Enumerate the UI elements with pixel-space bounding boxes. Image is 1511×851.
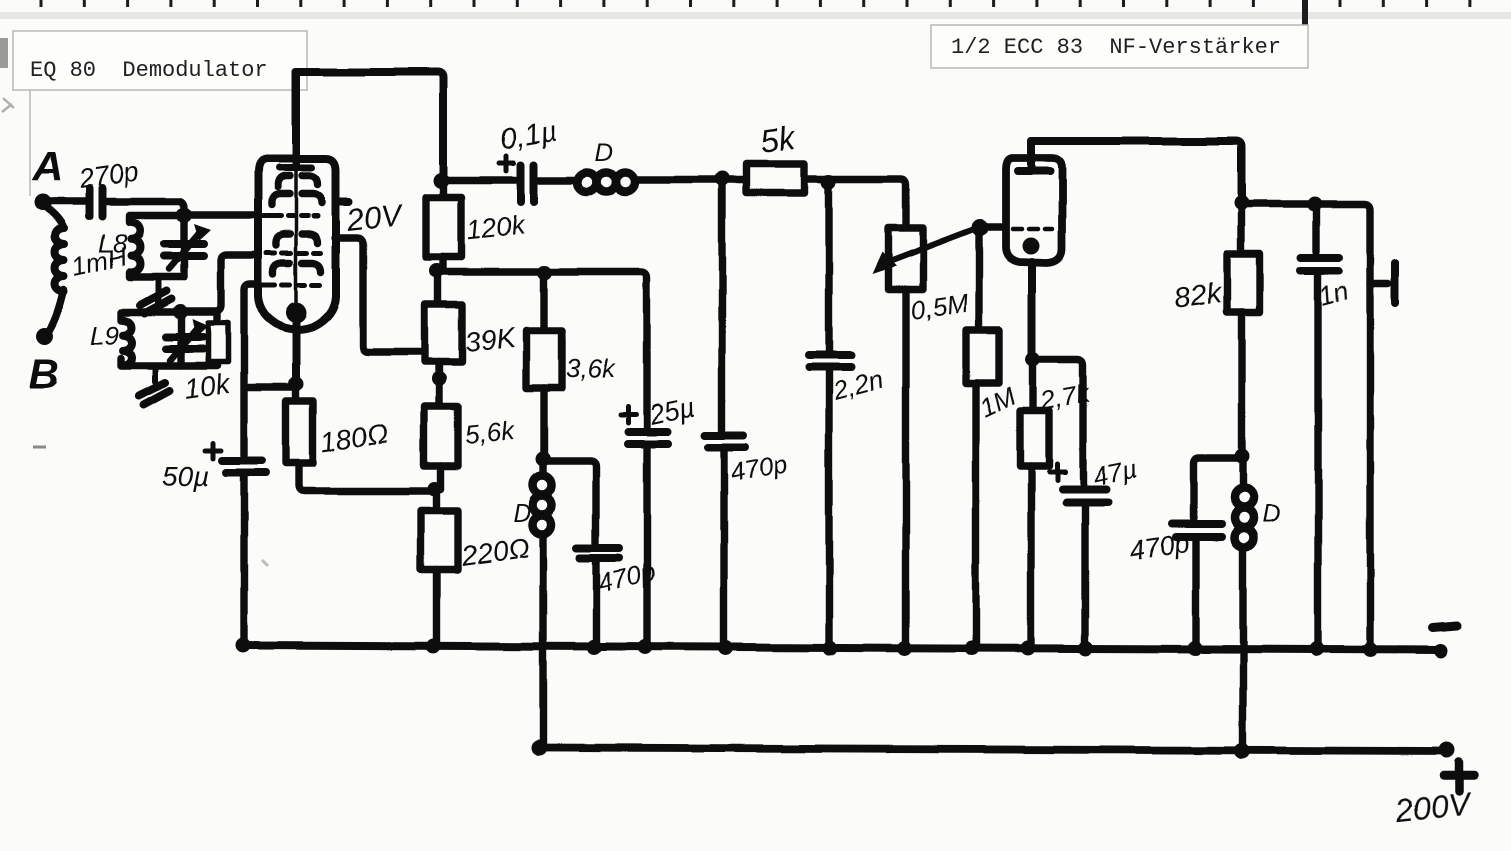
- svg-text:25µ: 25µ: [646, 392, 698, 431]
- svg-text:82k: 82k: [1173, 277, 1225, 315]
- svg-text:47µ: 47µ: [1090, 453, 1139, 491]
- svg-text:B: B: [29, 350, 59, 397]
- svg-text:120k: 120k: [465, 210, 528, 246]
- svg-text:20V: 20V: [344, 197, 407, 238]
- svg-text:1M: 1M: [975, 381, 1021, 424]
- svg-text:10k: 10k: [183, 368, 234, 405]
- svg-text:D: D: [595, 139, 613, 167]
- svg-text:1/2 ECC 83 NF-Verstärker: 1/2 ECC 83 NF-Verstärker: [951, 35, 1281, 60]
- svg-text:0,5M: 0,5M: [909, 288, 971, 326]
- svg-text:5,6k: 5,6k: [463, 415, 517, 450]
- svg-text:1n: 1n: [1316, 275, 1352, 311]
- svg-text:L9: L9: [90, 320, 119, 350]
- svg-text:EQ 80 Demodulator: EQ 80 Demodulator: [30, 58, 268, 83]
- svg-text:270p: 270p: [76, 156, 141, 194]
- svg-text:470p: 470p: [728, 448, 790, 488]
- svg-text:0,1µ: 0,1µ: [498, 115, 560, 156]
- svg-text:3,6k: 3,6k: [566, 353, 617, 383]
- svg-text:D: D: [1262, 500, 1280, 528]
- svg-text:200V: 200V: [1392, 785, 1474, 829]
- svg-text:180Ω: 180Ω: [319, 418, 391, 458]
- svg-text:50µ: 50µ: [162, 461, 209, 492]
- svg-text:220Ω: 220Ω: [459, 532, 532, 572]
- svg-text:39K: 39K: [463, 322, 517, 358]
- svg-text:1mH: 1mH: [69, 241, 129, 282]
- svg-text:470p: 470p: [1128, 528, 1192, 566]
- svg-text:D: D: [513, 500, 531, 528]
- svg-text:A: A: [32, 142, 63, 189]
- svg-text:5k: 5k: [758, 118, 799, 160]
